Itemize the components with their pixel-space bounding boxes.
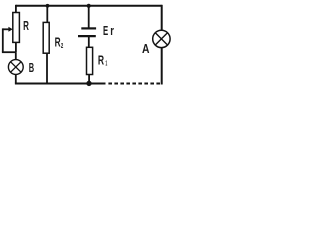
wire right rail upper part [161, 5, 163, 31]
node junction dot top of R2 branch [46, 4, 50, 8]
lamp B [8, 60, 23, 75]
wire lead from R2 down to bottom rail [46, 53, 48, 83]
wire bottom rail solid part [15, 83, 106, 85]
svg-text:2: 2 [61, 41, 63, 50]
wire lead from top rail to resistor R [15, 5, 17, 13]
svg-text:R: R [98, 54, 104, 68]
wire bottom rail dashed part [108, 83, 161, 85]
svg-text:B: B [29, 61, 34, 75]
svg-text:R: R [55, 35, 61, 49]
wire lead from top rail to resistor R2 [46, 6, 48, 23]
node junction dot top of battery branch [87, 4, 91, 8]
wire top rail [16, 5, 162, 7]
node junction dot bottom of battery branch [86, 81, 91, 86]
resistor R1 [87, 47, 93, 74]
svg-text:R: R [23, 19, 29, 33]
wire lead from top rail to battery [88, 6, 90, 29]
svg-text:1: 1 [105, 58, 107, 67]
wire lead from lamp B down to bottom rail [15, 74, 17, 83]
battery Er lower plate [78, 35, 96, 37]
wire lead below R to junction jog [15, 42, 17, 52]
wire right rail lower part [161, 47, 163, 84]
wire left rail from arrow tail down [2, 28, 4, 52]
wire lead from battery to resistor R1 [88, 36, 90, 47]
battery Er upper plate [81, 27, 96, 29]
svg-text:E: E [103, 24, 108, 38]
wire lead from jog down to lamp B [15, 52, 17, 60]
wiper arrow of rheostat R [3, 28, 9, 30]
resistor R2 [43, 22, 49, 53]
wire jog joining left rail and R branch [2, 51, 16, 53]
wire lead from R1 down to bottom rail [88, 75, 90, 84]
lamp A [153, 30, 170, 47]
resistor R [13, 13, 20, 43]
svg-text:A: A [142, 42, 150, 56]
svg-text:r: r [110, 24, 114, 38]
